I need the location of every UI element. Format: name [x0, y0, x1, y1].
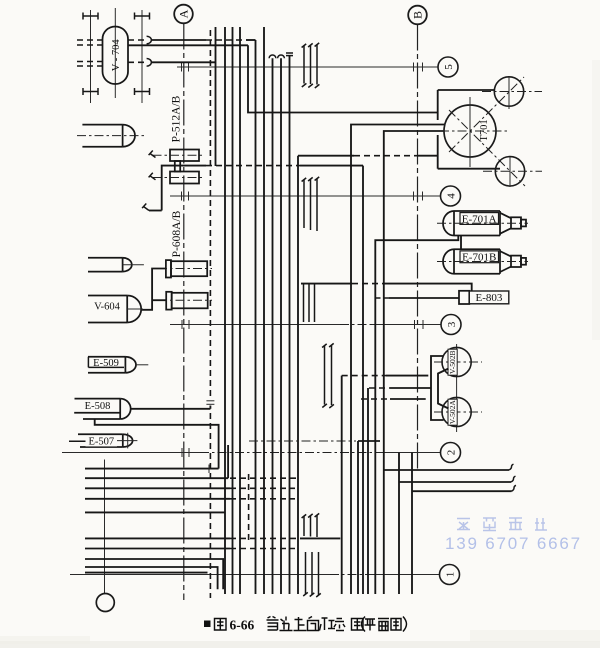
steel column symbol top-right [135, 13, 150, 20]
suction hook A [149, 151, 156, 158]
exchanger E-701A [437, 211, 528, 236]
column centerline right of V-704 [141, 10, 143, 103]
V-704 middle nozzle pipe [128, 44, 248, 46]
bundle line 10 [85, 572, 208, 574]
rack pipe 4 (from V-704 upper nozzle) [255, 40, 257, 594]
T-701 diagonal centerline lower [449, 110, 525, 186]
column line at bottom-left bubble [104, 460, 106, 594]
svg-text:B: B [411, 11, 425, 19]
pipe from V-704 upper nozzle [152, 39, 256, 41]
V-704 lower nozzle dashed lead [128, 61, 147, 63]
grid bubble A [174, 5, 193, 24]
svg-text:139 6707 6667: 139 6707 6667 [445, 534, 582, 553]
svg-text:V - 704: V - 704 [111, 39, 122, 72]
feed pipe to V-502 (second) [368, 388, 431, 594]
rack pipe from pump discharge [362, 166, 364, 594]
svg-text:2: 2 [445, 450, 457, 456]
svg-text:P-608A/B: P-608A/B [171, 210, 183, 257]
rack pipe (short, from V-704 lower nozzle) [215, 27, 217, 166]
feed pipe to T-701 (lower) [384, 131, 445, 594]
svg-text:E-508: E-508 [85, 401, 111, 412]
svg-text:A: A [177, 9, 191, 18]
bundle line 5 [85, 511, 225, 513]
pump P-512A [170, 150, 199, 162]
branch pipe with break hook (upper right) [384, 464, 514, 470]
row line 1 [70, 574, 440, 576]
bundle line 7 [85, 548, 295, 550]
grid bubble 1 [440, 565, 460, 585]
drop leg b (lower hook section) [308, 514, 313, 537]
unnamed exchanger centerline [77, 135, 147, 137]
unnamed exchanger above V-604 [88, 258, 132, 272]
exchanger E-507 [69, 433, 137, 449]
suction hook B [149, 173, 156, 180]
E-508 bottom drop pipe [95, 419, 219, 469]
hooked riser pair left [322, 343, 334, 408]
grid bubble 3 [441, 315, 461, 335]
unlabeled grid bubble bottom-left [96, 594, 114, 612]
exchanger E-509 [88, 357, 148, 373]
exchanger E-803 [459, 291, 509, 304]
svg-text:4: 4 [445, 193, 457, 199]
svg-text:V-502A: V-502A [448, 400, 457, 424]
bundle line 4 [85, 498, 295, 500]
figure caption [204, 617, 407, 633]
row line 4 [170, 192, 441, 201]
bundle line 3 [85, 487, 295, 489]
svg-text:6-66: 6-66 [230, 618, 255, 633]
svg-text:5: 5 [443, 64, 455, 70]
dashed riser lower [248, 474, 250, 540]
bundle line 2 with elbow up [85, 445, 298, 478]
svg-text:P-512A/B: P-512A/B [171, 95, 183, 142]
suction manifold from V-604 [141, 269, 167, 310]
svg-text:E-803: E-803 [476, 292, 503, 304]
drop leg b (bottom section with foot) [310, 552, 315, 597]
T-701 horizontal centerline [440, 130, 509, 132]
rack pipe 6 with vent dome [269, 55, 276, 594]
drop legs under E-803 feed [304, 284, 315, 322]
feed pipe to V-502 (first) [342, 376, 429, 594]
svg-text:3: 3 [446, 321, 458, 327]
grid bubble 2 [441, 443, 461, 463]
rack pipe 5 [263, 27, 265, 594]
branch pipe with break hook (mid right) [399, 476, 516, 482]
watermark company glyphs [457, 518, 547, 531]
svg-text:E-509: E-509 [93, 358, 119, 369]
rack pipe far right [411, 453, 413, 595]
rack pipe 1 [224, 27, 226, 594]
drop leg c (bottom section with foot) [316, 552, 321, 597]
pipe run to T-701 box edge [298, 155, 438, 157]
auxiliary circle lower [483, 157, 542, 187]
flange connector upper [147, 36, 152, 44]
drop leg a (bottom section with foot) [303, 552, 308, 596]
pump P-608A head [166, 260, 171, 277]
pump P-608A body [171, 261, 207, 276]
flange connector lower [147, 59, 152, 67]
rack pipe to E-701A feed [375, 236, 458, 595]
drum V-502B [434, 347, 482, 376]
broken drop leg a (top section) [302, 44, 307, 87]
svg-text:V-604: V-604 [94, 302, 121, 313]
T-701 vertical centerline [469, 97, 471, 167]
drum V-502A [434, 397, 482, 426]
steel column symbol bottom-left [83, 88, 98, 95]
rack pipe 7 with vent dome [278, 55, 285, 594]
rack pipe 9 with blind flange top [286, 53, 293, 594]
exchanger E-508 [74, 399, 130, 419]
rack pipe 3 [239, 27, 241, 594]
pump P-608A centerline [158, 268, 212, 270]
pipe from V-704 lower nozzle [152, 61, 216, 63]
inner connecting pipe V-502B/A [438, 369, 449, 409]
dashed riser to E-508 [206, 30, 214, 598]
row line 5 [177, 63, 438, 72]
svg-text:1: 1 [444, 572, 456, 578]
rack pipe right of jog [398, 453, 400, 595]
bundle line 6 [85, 537, 340, 539]
grid bubble B [408, 6, 427, 25]
drop leg a (middle section) [302, 178, 307, 228]
feed pipe to V-502 (third) [361, 398, 426, 400]
bundle line 1 [85, 468, 219, 470]
exchanger E-701B [437, 249, 528, 273]
tick on bundle line 1 [208, 465, 210, 474]
unnamed exchanger upper-left [82, 125, 135, 147]
grid bubble 4 [441, 186, 461, 206]
steel column symbol bottom-right [135, 88, 150, 95]
T-701 foundation box [438, 90, 500, 169]
V-502 vertical centerline [456, 344, 458, 432]
branch pipe with break hook (lower right) [412, 485, 516, 491]
broken drop leg c (top section) [315, 43, 320, 88]
unnamed exchanger stub [123, 264, 144, 266]
pump P-608B head [166, 292, 172, 310]
grid bubble 5 [438, 57, 458, 77]
pump P-608B body [172, 293, 208, 309]
rack pipe 2 [232, 27, 234, 594]
dashed stub lines left of V-704 [77, 40, 103, 66]
bundle line 8 with elbow down [85, 559, 223, 589]
bundle line 9 with elbow down [85, 567, 218, 589]
drop leg c (lower hook section) [315, 513, 320, 537]
paper edge shading [0, 641, 600, 648]
svg-text:V-502B: V-502B [448, 350, 457, 373]
pipe jog at rack bottom [358, 441, 380, 594]
feed pipe to E-803 lower [375, 297, 460, 299]
svg-text:E-507: E-507 [88, 437, 114, 448]
feed pipe to T-701 (middle) [351, 125, 445, 595]
auxiliary circle upper [482, 77, 542, 109]
drop leg b (middle section) [308, 177, 313, 230]
rack pipe 10 (from line to T-701 box) [297, 156, 299, 594]
vessel V-704 [103, 26, 129, 84]
vessel V-604 [88, 296, 143, 323]
riser elbow from middle nozzle [248, 45, 438, 112]
pump base block [175, 161, 180, 172]
row line 3 [170, 320, 441, 329]
feed pipe to E-803 upper [301, 284, 472, 291]
vessel V-704 centerline [114, 8, 116, 98]
pump B centerline [153, 177, 205, 179]
E-508 outlet pipe to dashed riser [131, 408, 211, 410]
row line 2 [62, 448, 441, 457]
V-704 upper nozzle dashed lead [128, 39, 147, 41]
steel column symbol top-left [83, 13, 98, 20]
T-701 diagonal centerline upper [449, 77, 524, 152]
pump P-512B [170, 172, 199, 184]
outer connecting pipe V-502B/A [431, 356, 444, 420]
column line B [417, 25, 419, 471]
pump discharge drop [142, 166, 363, 211]
column centerline left of V-704 [90, 10, 92, 103]
compressor T-701 [444, 105, 496, 157]
drop leg c (middle section) [315, 177, 320, 231]
pump A centerline [153, 154, 205, 156]
column line A [183, 24, 185, 601]
drop leg a (lower hook section) [302, 514, 307, 536]
pump P-608B centerline [158, 299, 212, 301]
connector pipe E-701A to E-701B [460, 236, 462, 250]
broken drop leg b (top section) [308, 43, 313, 87]
line under E-507 row to hooked risers [249, 440, 356, 442]
